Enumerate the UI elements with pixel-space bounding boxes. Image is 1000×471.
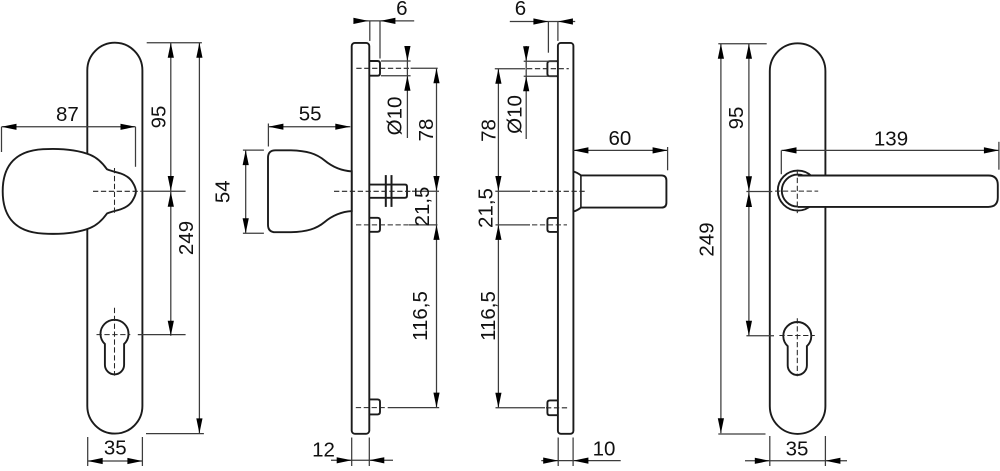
dimension 78 / 21,5 / 116,5 line, view 3 [497, 69, 499, 408]
svg-text:10: 10 [593, 438, 616, 461]
svg-text:116,5: 116,5 [477, 291, 500, 341]
backplate bar, lever side view [558, 43, 574, 434]
svg-text:116,5: 116,5 [409, 291, 432, 341]
svg-text:139: 139 [874, 128, 908, 151]
top screw boss, lever side view [547, 61, 558, 76]
lever rose inner circle [782, 175, 814, 207]
backplate bar, knob side view [352, 43, 370, 434]
extension line plate bottom, view 1 [146, 433, 204, 435]
bottom screw centre line (dashed), view 2 [356, 407, 386, 409]
svg-text:95: 95 [147, 106, 170, 129]
dimension 60 line [573, 149, 667, 151]
knob centre line horizontal (dashed) [93, 190, 141, 192]
middle screw centre line (dashed), view 2 [356, 224, 409, 226]
svg-text:78: 78 [415, 119, 438, 142]
dimension 12 line [331, 459, 393, 461]
bottom screw centre line (dashed), view 3 [546, 407, 567, 409]
svg-text:60: 60 [608, 127, 631, 150]
backplate of lever side, front view [770, 43, 826, 434]
dimension 10 line [541, 460, 620, 462]
svg-text:249: 249 [175, 221, 198, 255]
spindle centre line (dashed), view 2 [334, 190, 412, 192]
dimension 139 extensions [780, 150, 782, 174]
svg-text:78: 78 [478, 119, 501, 142]
svg-text:95: 95 [725, 107, 748, 130]
extension line cylinder centre, view 1 [138, 334, 186, 336]
dimension Ø10 ticks, view 2 [381, 60, 411, 62]
dimension 6 extensions, view 2 [369, 21, 371, 41]
dimension Ø10 line, view 2 [406, 46, 408, 138]
knob, front view [3, 149, 136, 234]
cylinder centre line horizontal (dashed), view 4 [779, 335, 814, 337]
middle screw centre line (dashed), view 3 [532, 224, 567, 226]
knob centre line vertical (dashed) [114, 168, 116, 214]
cylinder centre line horizontal (dashed) [97, 334, 131, 336]
extension tick bottom screw, view 3 [496, 407, 546, 409]
svg-text:Ø10: Ø10 [504, 95, 527, 134]
dimension 249 line [198, 43, 200, 434]
dimension 35 line, view 4 [745, 460, 847, 462]
svg-text:249: 249 [696, 222, 719, 256]
top screw centre line (dashed), view 2 [356, 67, 410, 69]
lever spindle stub, side view [573, 172, 666, 212]
dimension 87 line [2, 126, 136, 128]
extension tick spindle, view 3 [495, 190, 530, 192]
middle screw boss, knob side view [369, 218, 380, 232]
extension tick bottom screw, view 2 [388, 407, 440, 409]
euro profile cylinder hole, lever plate [783, 322, 811, 375]
extension tick top screw, view 2 [411, 67, 438, 69]
dimension 54 ticks [243, 149, 264, 151]
middle screw boss, lever side view [547, 218, 558, 232]
dimension 6 line, view 3 [510, 21, 575, 23]
top screw boss, knob side view [369, 61, 380, 76]
bottom screw boss, lever side view [547, 400, 558, 415]
extension line cylinder centre, view 4 [746, 335, 774, 337]
spindle stub junction line [580, 175, 582, 207]
spindle with nut, knob side view [369, 185, 407, 198]
dimension 95 line, view 4 [748, 44, 750, 336]
spindle centre line (dashed), view 3 [532, 190, 585, 192]
dimension 12 extensions [351, 438, 353, 467]
dimension 54 line [245, 150, 247, 233]
lever rose outer circle [778, 171, 818, 211]
extension line plate top, view 4 [718, 43, 766, 45]
dimension 60 extension [667, 147, 669, 170]
rose centre line vertical (dashed) [796, 170, 798, 213]
extension tick middle screw, view 3 [496, 224, 531, 226]
svg-text:21,5: 21,5 [475, 188, 498, 228]
dimension Ø10 line, view 3 [525, 46, 527, 139]
svg-text:35: 35 [104, 437, 127, 460]
svg-text:55: 55 [299, 102, 322, 125]
dimension 10 extensions [557, 438, 559, 467]
extension line knob centre, view 1 [143, 190, 186, 192]
extension line handle centre, view 4 [746, 191, 772, 193]
dimension 87 extension right [135, 127, 137, 167]
extension tick top screw, view 3 [495, 68, 525, 70]
backplate of knob side, front view [87, 43, 142, 434]
lever handle bar [798, 176, 998, 207]
svg-text:87: 87 [56, 103, 79, 126]
dimension 95 line [170, 43, 172, 336]
euro profile cylinder hole, knob plate [101, 320, 129, 375]
dimension 249 line, view 4 [720, 44, 722, 434]
top screw centre line (dashed), view 3 [527, 68, 569, 70]
dimension 55 extension [267, 124, 269, 147]
bottom screw boss, knob side view [369, 399, 380, 414]
dimension Ø10 ticks, view 3 [524, 60, 557, 62]
dimension 78 / 21,5 / 116,5 line, view 2 [436, 68, 438, 407]
spindle flange lines [385, 175, 387, 207]
extension tick middle screw, view 2 [409, 224, 438, 226]
extension line plate top, view 1 [147, 42, 202, 44]
dimension 6 line, view 2 [354, 20, 414, 22]
svg-text:35: 35 [786, 438, 809, 461]
dimension 87 extension left [1, 127, 3, 152]
svg-text:6: 6 [515, 0, 526, 20]
extension tick spindle, view 2 [412, 190, 439, 192]
svg-text:12: 12 [312, 439, 335, 462]
knob profile, side view [268, 150, 352, 232]
dimension 35 extension lines, view 1 [87, 437, 89, 466]
svg-text:Ø10: Ø10 [384, 97, 407, 136]
svg-text:21,5: 21,5 [411, 187, 434, 227]
cylinder centre line vertical (dashed) [114, 308, 116, 376]
dimension 35 line, view 1 [88, 460, 143, 462]
dimension 55 line [268, 126, 350, 128]
svg-text:54: 54 [211, 180, 234, 203]
svg-text:6: 6 [396, 0, 407, 20]
dimension 35 extensions, view 4 [769, 436, 771, 466]
dimension 139 line [782, 149, 999, 151]
rose centre line horizontal (dashed) [775, 190, 818, 192]
cylinder centre line vertical (dashed), view 4 [796, 318, 798, 376]
extension line plate bottom, view 4 [718, 433, 765, 435]
dimension 6 extensions, view 3 [547, 22, 549, 53]
